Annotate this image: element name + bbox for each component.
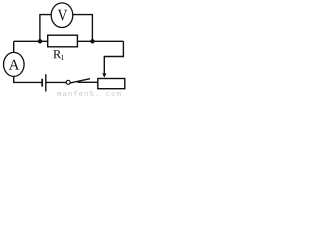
switch S lever (70, 79, 90, 83)
wire left side down to ammeter (13, 41, 15, 64)
ammeter A letter (9, 58, 20, 74)
voltmeter V letter (58, 7, 68, 24)
svg-text:manfen5. com: manfen5. com (57, 91, 121, 98)
wire ammeter to bottom-left corner and bottom wire (14, 64, 43, 82)
wire switch to rheostat (78, 81, 98, 83)
wire right side: down, jog left, down to wiper (104, 41, 123, 74)
rheostat wiper arrowhead (102, 73, 106, 77)
resistor R1 box (48, 35, 78, 47)
wire voltmeter right vertical (91, 14, 93, 41)
battery cell: short plate (negative) (41, 79, 43, 87)
voltmeter V circle (51, 3, 73, 28)
wire voltmeter left vertical (39, 14, 41, 41)
battery cell: long plate (positive) (45, 74, 47, 91)
svg-text:V: V (58, 7, 68, 24)
svg-text:1: 1 (60, 53, 64, 62)
ammeter A circle (4, 52, 25, 76)
watermark manfen5.com (57, 91, 121, 99)
node dot right junction (90, 39, 94, 43)
rheostat R2 box (98, 79, 125, 89)
label R1 (53, 47, 64, 62)
svg-text:A: A (9, 58, 20, 74)
wire battery to switch (46, 81, 66, 83)
switch S contact circle (66, 80, 70, 84)
wire voltmeter right horizontal (62, 14, 92, 16)
wire top main (14, 40, 124, 42)
wire voltmeter left horizontal (40, 14, 62, 16)
node dot left junction (38, 39, 42, 43)
